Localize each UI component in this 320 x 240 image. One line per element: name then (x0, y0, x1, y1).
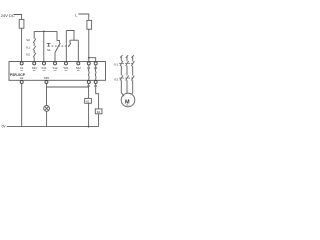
svg-text:S12: S12 (53, 66, 58, 70)
node 24VDC supply label (1, 13, 15, 18)
svg-text:S22: S22 (76, 66, 81, 70)
terminal 13 (87, 62, 90, 65)
wire S11 drop (43, 31, 45, 62)
svg-text:K2: K2 (114, 78, 118, 82)
wire S21 riser (65, 31, 67, 63)
terminal S11 (43, 62, 46, 65)
wire S22 riser (77, 40, 79, 62)
three-phase line L2 (126, 55, 129, 93)
internal contact path 13-14 (87, 65, 90, 81)
wire lamp branch to 14 (47, 86, 89, 88)
svg-text:24V DC: 24V DC (1, 13, 15, 18)
wire F2 to terminal 13 (88, 29, 90, 62)
coil K1 (85, 98, 92, 103)
svg-text:S21: S21 (64, 66, 69, 70)
node 0V label (2, 125, 7, 129)
switch chain: contact S2 reset (33, 31, 36, 45)
terminal A2 (20, 81, 23, 84)
terminal S21 (65, 62, 68, 65)
svg-text:S11: S11 (42, 66, 47, 70)
svg-text:PSR-SCP: PSR-SCP (10, 73, 26, 77)
svg-text:A1: A1 (20, 66, 24, 70)
wire L feed (78, 14, 88, 20)
wire branch 13 to 23 (89, 58, 96, 62)
wire F1 to A1 (21, 28, 23, 62)
svg-text:L: L (75, 12, 78, 17)
svg-text:S35: S35 (44, 76, 49, 80)
terminal A1 (20, 62, 23, 65)
wire 24VDC feed (14, 15, 22, 20)
svg-text:K2: K2 (97, 110, 101, 114)
terminal S35 lamp output (45, 81, 48, 84)
wire K2 to rail (98, 114, 100, 127)
terminal S34 (33, 62, 36, 65)
e-stop contact channel 1 (55, 43, 60, 62)
wire 14 to K1 (88, 84, 90, 99)
terminal 24 (94, 81, 97, 84)
wire bus drop to channel 1 (57, 31, 59, 43)
terminal S22 (77, 62, 80, 65)
junction dot K1 rail (88, 126, 90, 128)
node L supply label (75, 12, 78, 17)
junction dot branch (88, 57, 90, 59)
wire bridge channel 2 (66, 31, 74, 41)
fuse F2 (87, 20, 92, 29)
wire channel 2 jog (70, 39, 78, 41)
e-stop S1 head (47, 43, 51, 46)
contact K1 aux (33, 46, 36, 53)
wire 24 to K2 (96, 84, 99, 109)
terminal S12 (54, 62, 57, 65)
wire top bus (34, 30, 57, 32)
lamp H1 (44, 106, 50, 112)
svg-text:K2: K2 (26, 53, 30, 57)
relay box PSR-SCP (9, 62, 106, 81)
contactor K2 main contacts dashed link (119, 77, 133, 79)
motor M1 (121, 93, 135, 107)
e-stop contact channel 2 (68, 40, 70, 47)
coil K2 (95, 109, 102, 114)
fuse F1 (19, 19, 24, 28)
terminal 14 (87, 81, 90, 84)
svg-text:K1: K1 (114, 62, 118, 66)
svg-text:0V: 0V (2, 125, 7, 129)
e-stop mechanical dashed link (52, 45, 70, 47)
svg-text:S1: S1 (47, 48, 51, 52)
svg-text:A2: A2 (20, 76, 24, 80)
terminal 23 (94, 62, 97, 65)
three-phase line L1 (120, 55, 124, 96)
contactor K1 main contacts dashed link (119, 63, 133, 65)
contact K2 aux (33, 53, 36, 62)
svg-text:K1: K1 (86, 100, 90, 104)
internal contact path 23-24 (94, 65, 97, 81)
wire lamp to rail (46, 111, 48, 126)
wire 0V rail (7, 126, 99, 128)
three-phase line L3 (131, 55, 134, 94)
svg-text:S2: S2 (26, 38, 30, 42)
svg-text:S34: S34 (32, 66, 37, 70)
svg-text:K1: K1 (26, 45, 30, 49)
wire lamp feed (46, 84, 48, 106)
wire A2 down (21, 84, 23, 127)
junction node S11 bus dot (43, 31, 45, 33)
wire K1 to rail (88, 103, 90, 126)
svg-text:3~: 3~ (126, 103, 130, 107)
